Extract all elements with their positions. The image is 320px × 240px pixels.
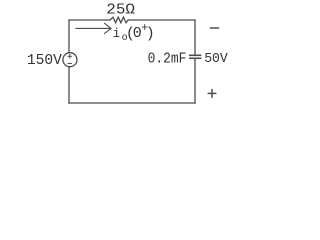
- polarity minus (top right): [211, 27, 219, 29]
- capacitor C bottom plate: [190, 57, 201, 59]
- voltage source V1 circle: [63, 53, 77, 67]
- svg-text:): ): [146, 25, 155, 42]
- polarity plus (bottom right): [208, 92, 215, 94]
- wire left upper (top to source): [68, 20, 70, 53]
- wire top-left segment: [69, 19, 110, 21]
- source minus mark: [68, 62, 72, 64]
- svg-text:150V: 150V: [27, 53, 62, 69]
- capacitor C top plate: [190, 54, 201, 56]
- resistor R 25ohm: [110, 17, 128, 23]
- wire right upper (to capacitor): [194, 20, 196, 55]
- svg-text:50V: 50V: [204, 51, 228, 67]
- svg-text:i: i: [113, 27, 121, 41]
- current arrow shaft i_o: [76, 27, 110, 29]
- wire bottom: [69, 102, 195, 104]
- wire top-right segment: [128, 19, 195, 21]
- svg-text:0.2mF: 0.2mF: [148, 50, 187, 67]
- current arrow head: [105, 23, 112, 33]
- wire left lower (source to bottom): [68, 67, 70, 103]
- source plus mark: [68, 55, 72, 57]
- svg-text:25Ω: 25Ω: [106, 2, 135, 19]
- wire right lower: [194, 59, 196, 103]
